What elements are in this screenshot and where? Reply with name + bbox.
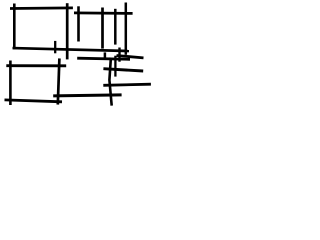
wire vertical A of top-right grid bbox=[77, 6, 80, 41]
wire top horizontal of bottom-left box bbox=[6, 64, 66, 67]
wire vertical D of top-right grid bbox=[125, 3, 128, 55]
wire short vertical 2 of bottom-right cluster bbox=[114, 56, 116, 77]
wire top horizontal of bottom-right cluster bbox=[77, 58, 130, 59]
wire long wobbly vertical of bottom-right cluster bbox=[109, 58, 111, 106]
wire middle horizontal of bottom-right cluster bbox=[103, 69, 143, 71]
wire vertical C of top-right grid bbox=[114, 9, 117, 45]
wire lower horizontal of bottom-right cluster bbox=[103, 84, 151, 85]
wire long bottom horizontal of top-left box bbox=[13, 48, 130, 51]
wire top horizontal of top-right grid bbox=[74, 11, 133, 14]
wire bottom horizontal of bottom-left box bbox=[5, 100, 63, 102]
wire right vertical of top-left box bbox=[66, 3, 69, 59]
wire low horizontal of top-right grid bbox=[117, 56, 144, 58]
wire short stub above top horizontal of bottom-right cluster bbox=[104, 52, 107, 59]
wire short vertical tick crossing bottom of top-left box bbox=[54, 41, 56, 53]
wire left vertical of top-left box bbox=[13, 4, 16, 50]
wire vertical B of top-right grid bbox=[101, 8, 104, 49]
wire top horizontal of top-left box bbox=[10, 7, 73, 10]
wire long bottom horizontal of bottom-right cluster bbox=[53, 95, 121, 96]
wire left vertical of bottom-left box bbox=[9, 61, 12, 106]
wire short vertical E crossing low horizontal bbox=[118, 48, 120, 62]
wire right vertical of bottom-left box bbox=[58, 58, 60, 104]
